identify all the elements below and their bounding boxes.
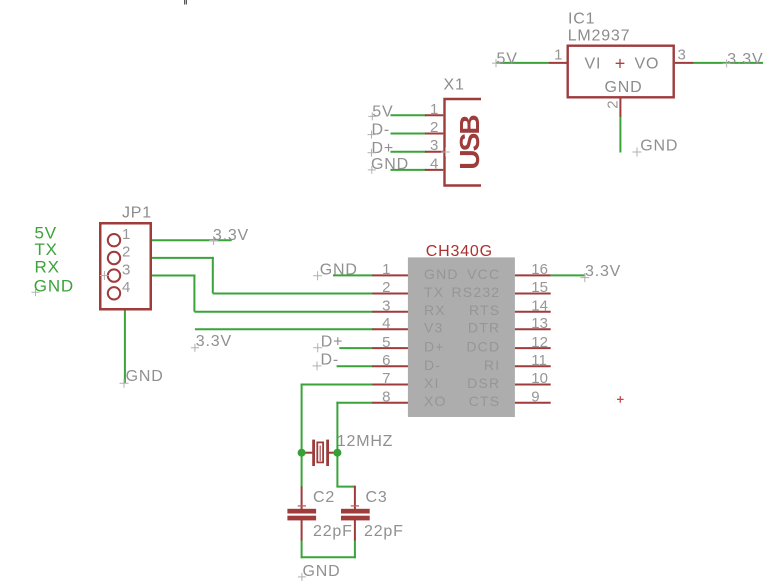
svg-text:5V: 5V bbox=[497, 51, 518, 68]
svg-text:GND: GND bbox=[34, 276, 74, 295]
svg-text:13: 13 bbox=[531, 315, 548, 332]
svg-text:GND: GND bbox=[371, 156, 409, 173]
svg-text:22pF: 22pF bbox=[313, 523, 353, 540]
svg-text:6: 6 bbox=[382, 352, 390, 369]
svg-text:X1: X1 bbox=[444, 77, 465, 94]
svg-text:3.3V: 3.3V bbox=[196, 333, 232, 350]
svg-text:3: 3 bbox=[382, 297, 390, 314]
svg-text:V3: V3 bbox=[424, 320, 444, 336]
svg-text:CH340G: CH340G bbox=[426, 243, 493, 260]
svg-text:TX: TX bbox=[35, 240, 58, 259]
svg-text:8: 8 bbox=[382, 388, 390, 405]
svg-text:USB: USB bbox=[454, 116, 485, 170]
svg-text:RTS: RTS bbox=[469, 302, 500, 318]
svg-text:2: 2 bbox=[430, 119, 438, 136]
svg-text:4: 4 bbox=[122, 279, 130, 296]
svg-text:2: 2 bbox=[122, 244, 130, 261]
svg-text:3: 3 bbox=[430, 137, 438, 154]
svg-text:RS232: RS232 bbox=[451, 284, 500, 300]
svg-text:22pF: 22pF bbox=[364, 523, 404, 540]
svg-text:XO: XO bbox=[424, 393, 447, 409]
svg-text:11: 11 bbox=[531, 352, 547, 369]
svg-text:DSR: DSR bbox=[467, 375, 500, 391]
svg-text:1: 1 bbox=[430, 101, 438, 118]
svg-text:D-: D- bbox=[372, 122, 390, 139]
svg-text:16: 16 bbox=[531, 261, 548, 278]
svg-text:VI: VI bbox=[585, 56, 602, 73]
svg-text:RX: RX bbox=[35, 257, 60, 276]
svg-text:3.3V: 3.3V bbox=[585, 263, 621, 280]
svg-text:3: 3 bbox=[122, 261, 130, 278]
svg-text:3: 3 bbox=[678, 46, 686, 63]
svg-text:GND: GND bbox=[126, 368, 164, 385]
svg-text:RX: RX bbox=[424, 302, 446, 318]
svg-text:2: 2 bbox=[382, 279, 390, 296]
svg-text:2: 2 bbox=[605, 100, 622, 108]
svg-text:GND: GND bbox=[303, 563, 341, 580]
svg-text:D-: D- bbox=[321, 351, 339, 368]
svg-text:D+: D+ bbox=[372, 140, 395, 157]
svg-text:1: 1 bbox=[554, 46, 562, 63]
svg-text:IC1: IC1 bbox=[568, 11, 595, 28]
svg-text:DCD: DCD bbox=[466, 339, 500, 355]
svg-text:15: 15 bbox=[531, 279, 548, 296]
svg-text:12MHZ: 12MHZ bbox=[337, 433, 393, 450]
svg-text:VCC: VCC bbox=[467, 266, 500, 282]
svg-text:1: 1 bbox=[122, 226, 130, 243]
svg-text:CTS: CTS bbox=[469, 393, 501, 409]
svg-text:C2: C2 bbox=[313, 489, 335, 506]
svg-text:7: 7 bbox=[382, 370, 390, 387]
svg-text:C3: C3 bbox=[366, 489, 388, 506]
svg-text:10: 10 bbox=[531, 370, 548, 387]
svg-text:4: 4 bbox=[382, 315, 390, 332]
svg-text:3.3V: 3.3V bbox=[213, 227, 249, 244]
svg-text:+: + bbox=[615, 53, 626, 73]
svg-text:XI: XI bbox=[424, 375, 440, 391]
svg-text:LM2937: LM2937 bbox=[568, 27, 631, 44]
svg-text:5: 5 bbox=[382, 334, 390, 351]
svg-text:DTR: DTR bbox=[468, 320, 500, 336]
svg-text:GND: GND bbox=[424, 266, 459, 282]
svg-text:GND: GND bbox=[640, 138, 678, 155]
svg-text:4: 4 bbox=[430, 155, 438, 172]
svg-text:12: 12 bbox=[531, 334, 548, 351]
svg-text:RI: RI bbox=[484, 357, 500, 373]
svg-text:VO: VO bbox=[635, 56, 660, 73]
svg-text:JP1: JP1 bbox=[122, 205, 152, 222]
svg-text:5V: 5V bbox=[372, 104, 393, 121]
svg-text:3.3V: 3.3V bbox=[727, 51, 763, 68]
svg-text:GND: GND bbox=[605, 79, 643, 96]
svg-text:GND: GND bbox=[320, 261, 358, 278]
svg-text:9: 9 bbox=[531, 388, 539, 405]
svg-text:D+: D+ bbox=[321, 333, 344, 350]
svg-text:D-: D- bbox=[424, 357, 441, 373]
svg-text:TX: TX bbox=[424, 284, 444, 300]
svg-text:14: 14 bbox=[531, 297, 548, 314]
svg-text:1: 1 bbox=[382, 261, 390, 278]
svg-text:D+: D+ bbox=[424, 339, 445, 355]
